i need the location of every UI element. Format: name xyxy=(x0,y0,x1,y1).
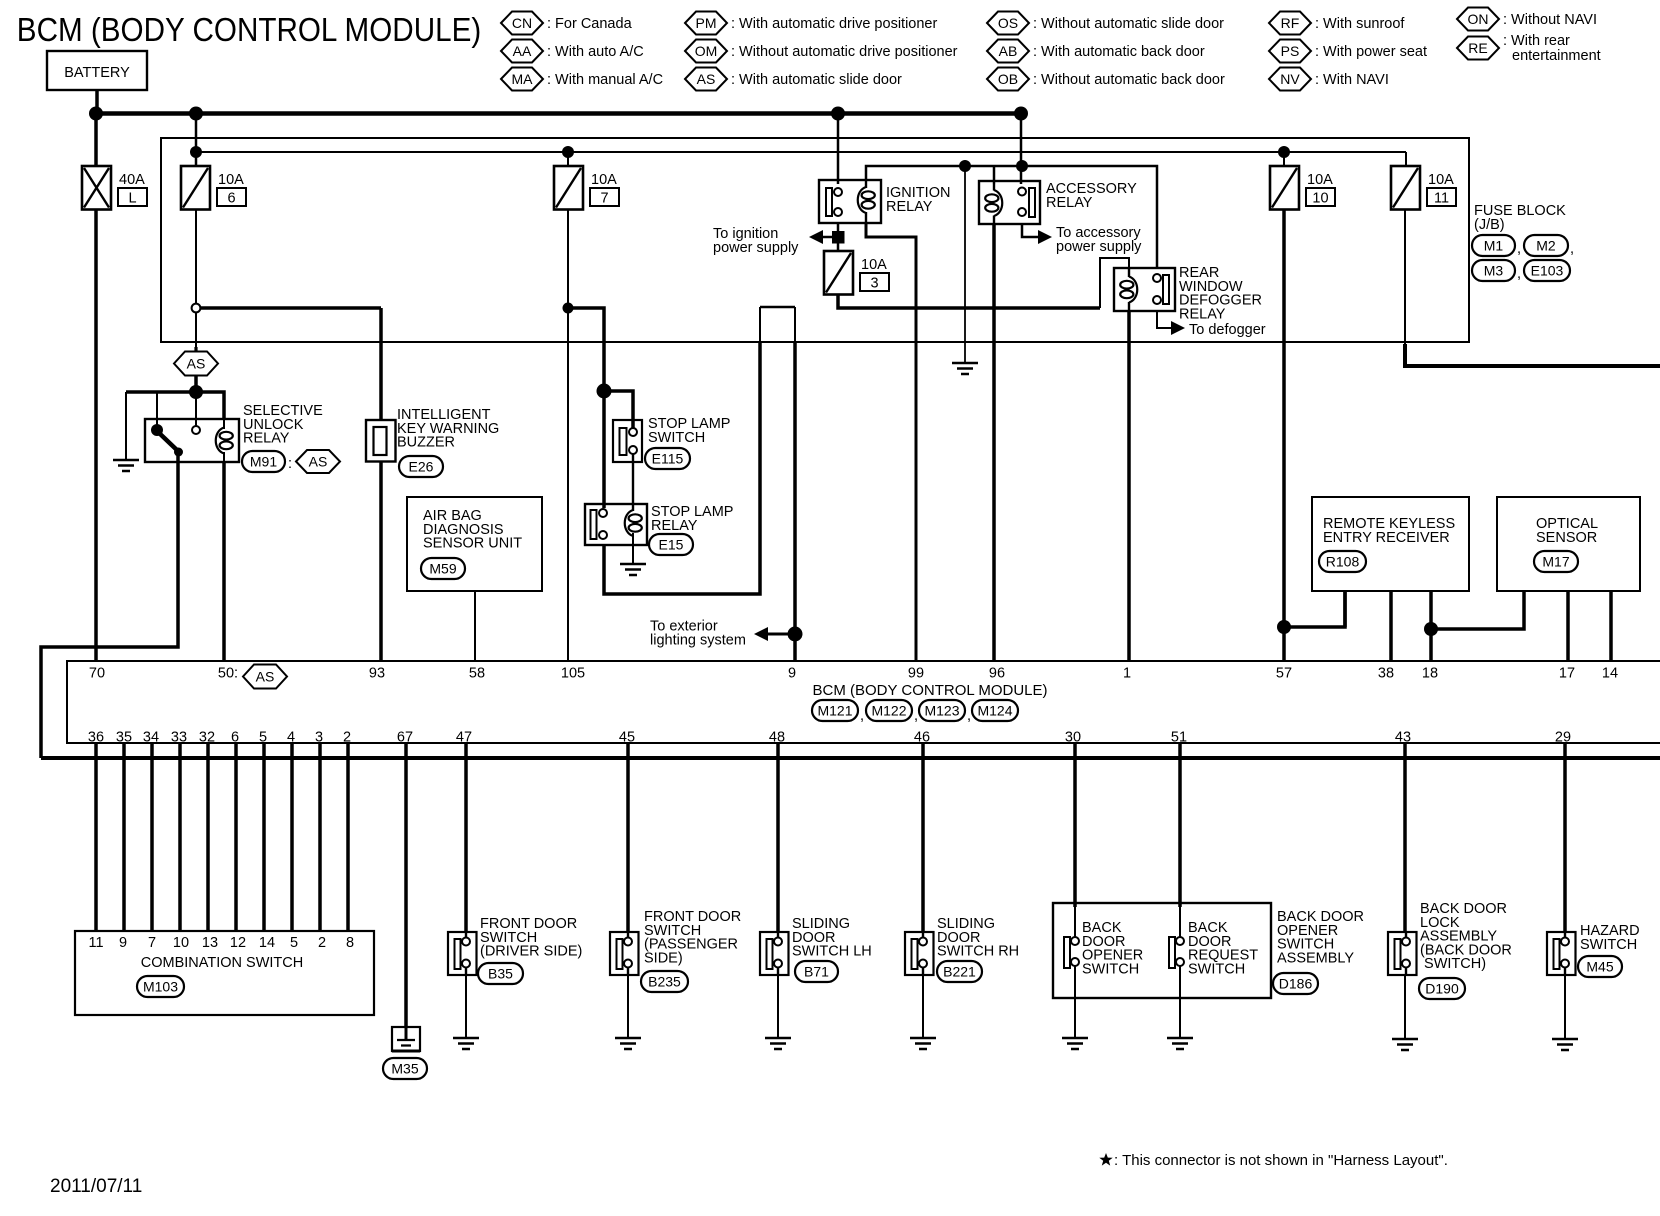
svg-text:12: 12 xyxy=(230,935,246,951)
svg-text:13: 13 xyxy=(202,935,218,951)
svg-text:10A: 10A xyxy=(218,172,244,188)
svg-text:9: 9 xyxy=(788,666,796,682)
svg-text:: With automatic back door: : With automatic back door xyxy=(1033,44,1205,60)
svg-text:BATTERY: BATTERY xyxy=(64,65,130,81)
svg-text:E26: E26 xyxy=(409,459,434,475)
svg-text:30: 30 xyxy=(1065,730,1081,746)
svg-text:,: , xyxy=(1570,241,1574,257)
svg-text:RE: RE xyxy=(1468,40,1487,56)
svg-text:7: 7 xyxy=(600,191,608,207)
svg-text:,: , xyxy=(967,708,971,724)
svg-text:OS: OS xyxy=(998,15,1018,31)
svg-text:M121: M121 xyxy=(817,703,852,719)
svg-text:M122: M122 xyxy=(871,703,906,719)
svg-text:MA: MA xyxy=(512,71,534,87)
svg-text:M17: M17 xyxy=(1542,554,1569,570)
svg-text:NV: NV xyxy=(1280,71,1300,87)
svg-text:14: 14 xyxy=(259,935,275,951)
svg-text:47: 47 xyxy=(456,730,472,746)
svg-text:7: 7 xyxy=(148,935,156,951)
svg-text:OM: OM xyxy=(695,43,718,59)
svg-text:3: 3 xyxy=(870,276,878,292)
svg-text:17: 17 xyxy=(1559,666,1575,682)
svg-text:To defogger: To defogger xyxy=(1189,322,1266,338)
svg-text:OB: OB xyxy=(998,71,1018,87)
svg-text:10A: 10A xyxy=(1428,172,1454,188)
svg-text:: For Canada: : For Canada xyxy=(547,16,633,32)
svg-text:M1: M1 xyxy=(1484,238,1504,254)
svg-text:BCM (BODY CONTROL MODULE): BCM (BODY CONTROL MODULE) xyxy=(812,682,1047,699)
svg-text:29: 29 xyxy=(1555,730,1571,746)
svg-text:18: 18 xyxy=(1422,666,1438,682)
svg-text:: With power seat: : With power seat xyxy=(1315,44,1427,60)
svg-text:BCM (BODY CONTROL MODULE): BCM (BODY CONTROL MODULE) xyxy=(17,10,481,48)
svg-text:: With manual A/C: : With manual A/C xyxy=(547,72,663,88)
svg-text:: With automatic drive positio: : With automatic drive positioner xyxy=(731,16,937,32)
svg-text:,: , xyxy=(860,708,864,724)
svg-text:AB: AB xyxy=(999,43,1018,59)
svg-text:: Without automatic back door: : Without automatic back door xyxy=(1033,72,1225,88)
svg-text:9: 9 xyxy=(119,935,127,951)
svg-text:AS: AS xyxy=(697,71,716,87)
svg-text:: With rear: : With rear xyxy=(1503,33,1570,49)
svg-text:2: 2 xyxy=(318,935,326,951)
svg-text:CN: CN xyxy=(512,15,532,31)
svg-text:PM: PM xyxy=(696,15,717,31)
svg-text:AS: AS xyxy=(187,356,206,372)
svg-text:96: 96 xyxy=(989,666,1005,682)
svg-text:40A: 40A xyxy=(119,172,145,188)
svg-text:COMBINATION SWITCH: COMBINATION SWITCH xyxy=(141,955,303,971)
svg-text:6: 6 xyxy=(227,191,235,207)
svg-text:93: 93 xyxy=(369,666,385,682)
svg-text:PS: PS xyxy=(1281,43,1300,59)
svg-text:L: L xyxy=(128,191,136,207)
svg-text:: Without automatic drive posi: : Without automatic drive positioner xyxy=(731,44,958,60)
svg-text:105: 105 xyxy=(561,666,585,682)
svg-text:: Without automatic slide door: : Without automatic slide door xyxy=(1033,16,1224,32)
svg-text:,: , xyxy=(1517,266,1521,282)
svg-text:8: 8 xyxy=(346,935,354,951)
svg-text:1: 1 xyxy=(1123,666,1131,682)
svg-text:10A: 10A xyxy=(861,257,887,273)
svg-text:: Without NAVI: : Without NAVI xyxy=(1503,12,1597,28)
svg-text:5: 5 xyxy=(290,935,298,951)
svg-text:57: 57 xyxy=(1276,666,1292,682)
svg-text:B235: B235 xyxy=(648,974,681,990)
svg-text:10A: 10A xyxy=(1307,172,1333,188)
svg-text:M124: M124 xyxy=(977,703,1012,719)
svg-text:,: , xyxy=(1517,241,1521,257)
svg-text:REMOTE KEYLESSENTRY RECEIVER: REMOTE KEYLESSENTRY RECEIVER xyxy=(1323,516,1455,546)
svg-text:11: 11 xyxy=(1434,191,1449,207)
svg-text:M91: M91 xyxy=(250,454,277,470)
svg-text:: This connector is not shown: : This connector is not shown in "Harnes… xyxy=(1114,1152,1448,1169)
svg-text:To accessorypower supply: To accessorypower supply xyxy=(1056,225,1142,255)
svg-text:: With sunroof: : With sunroof xyxy=(1315,16,1405,32)
svg-text:10: 10 xyxy=(1312,191,1328,207)
svg-text:B71: B71 xyxy=(804,964,829,980)
svg-text:OPTICALSENSOR: OPTICALSENSOR xyxy=(1536,516,1598,546)
svg-text::: : xyxy=(288,456,292,472)
svg-text:entertainment: entertainment xyxy=(1512,48,1601,64)
svg-text:M45: M45 xyxy=(1586,959,1613,975)
svg-text:2011/07/11: 2011/07/11 xyxy=(50,1176,142,1197)
svg-text:M3: M3 xyxy=(1484,263,1504,279)
svg-text:E115: E115 xyxy=(652,451,684,467)
svg-text:70: 70 xyxy=(89,666,105,682)
svg-text:E15: E15 xyxy=(659,537,684,553)
svg-text:50:: 50: xyxy=(218,666,238,682)
svg-text:99: 99 xyxy=(908,666,924,682)
svg-text:B221: B221 xyxy=(943,964,976,980)
svg-text:AA: AA xyxy=(513,43,532,59)
svg-text:D190: D190 xyxy=(1425,981,1459,997)
svg-text:RF: RF xyxy=(1281,15,1300,31)
svg-text:58: 58 xyxy=(469,666,485,682)
svg-text:AS: AS xyxy=(309,454,328,470)
svg-text:: With auto A/C: : With auto A/C xyxy=(547,44,644,60)
svg-text:M103: M103 xyxy=(143,979,178,995)
svg-text:B35: B35 xyxy=(488,966,513,982)
svg-text:M35: M35 xyxy=(391,1061,418,1077)
svg-text:10A: 10A xyxy=(591,172,617,188)
svg-text:AS: AS xyxy=(256,669,275,685)
svg-text:,: , xyxy=(914,708,918,724)
svg-text:E103: E103 xyxy=(1531,263,1564,279)
svg-text:38: 38 xyxy=(1378,666,1394,682)
svg-text:: With NAVI: : With NAVI xyxy=(1315,72,1389,88)
svg-text:14: 14 xyxy=(1602,666,1618,682)
svg-text:HAZARDSWITCH: HAZARDSWITCH xyxy=(1580,923,1640,953)
svg-text:: With automatic slide door: : With automatic slide door xyxy=(731,72,902,88)
svg-text:ON: ON xyxy=(1468,11,1489,27)
svg-text:M123: M123 xyxy=(924,703,959,719)
svg-text:D186: D186 xyxy=(1279,976,1313,992)
svg-text:M2: M2 xyxy=(1536,238,1556,254)
svg-text:R108: R108 xyxy=(1326,554,1360,570)
svg-text:43: 43 xyxy=(1395,730,1411,746)
svg-text:11: 11 xyxy=(88,935,103,951)
svg-text:10: 10 xyxy=(173,935,189,951)
svg-text:M59: M59 xyxy=(429,561,456,577)
